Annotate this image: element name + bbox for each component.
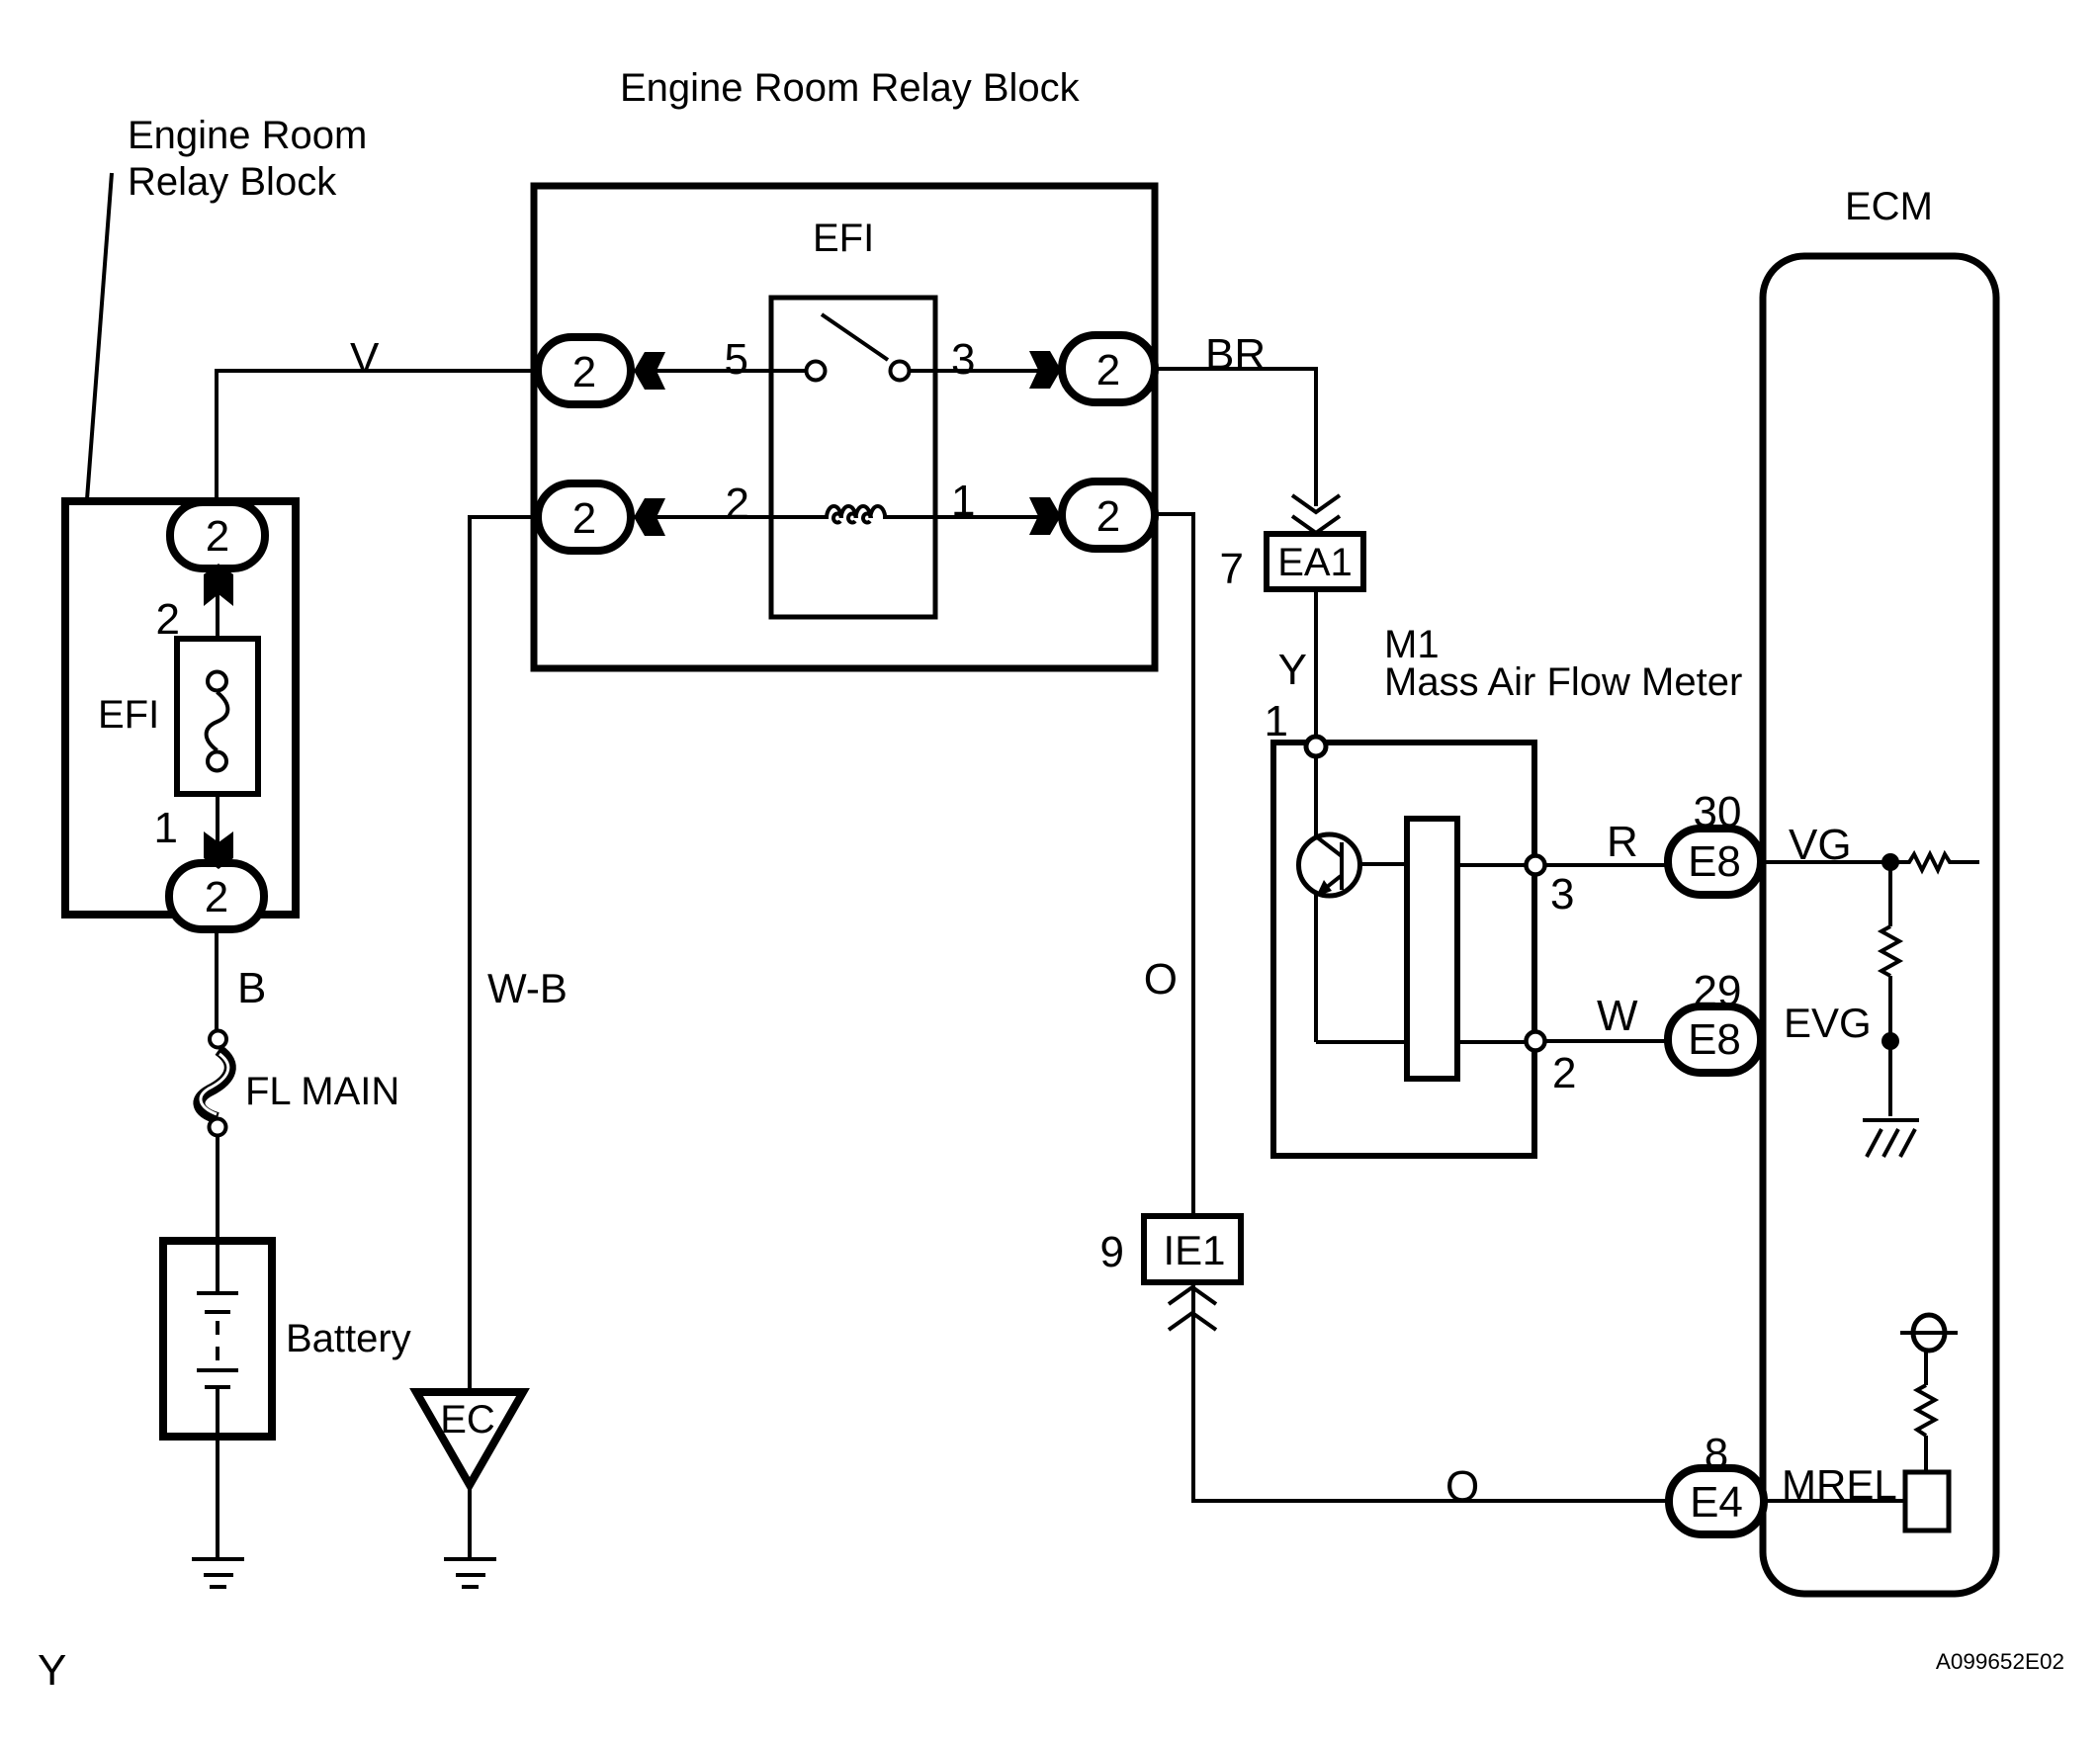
label: 9 IE1 [1100, 1228, 1124, 1276]
svg-text:EA1: EA1 [1277, 541, 1353, 584]
wire: BR run from relay block to EA1 chevrons [1155, 369, 1316, 506]
label: E8 pin29 [1688, 1015, 1741, 1064]
arrow left into relay row1 left oval [634, 352, 665, 390]
relay switch right contact [891, 362, 910, 381]
label: MAF pin 3 [1550, 870, 1574, 918]
svg-text:EVG: EVG [1784, 1000, 1872, 1046]
label: EFI fuse [98, 693, 159, 737]
label: Battery [286, 1317, 411, 1360]
label: R wire [1607, 818, 1638, 866]
double chevron into IE1 [1169, 1287, 1216, 1330]
label: W-B wire [487, 965, 568, 1011]
fuse EFI element squiggle [207, 692, 228, 750]
arrow right into relay row2 right oval [1029, 497, 1061, 535]
wire: battery negative to ground [216, 1387, 219, 1558]
engine room relay block (main) outline [534, 186, 1155, 668]
connector oval E8 pin29 [1668, 1006, 1761, 1073]
svg-text:O: O [1445, 1462, 1479, 1511]
oval text 2 (relay row1 left) [572, 348, 596, 396]
svg-text:1: 1 [154, 804, 178, 852]
label: IE1 [1163, 1227, 1225, 1273]
svg-text:EFI: EFI [813, 217, 874, 260]
connector oval 2 relay row2 right [1062, 481, 1155, 549]
resistor: ECM vertical resistor between VG and EVG [1881, 926, 1899, 976]
svg-text:Battery: Battery [286, 1317, 411, 1360]
label: Engine Room Relay Block (left) [128, 114, 367, 204]
ground under EC [444, 1559, 496, 1587]
MREL relay element square inside ECM [1905, 1472, 1949, 1530]
arrow right into relay row1 right oval [1029, 351, 1061, 389]
junction dot on EVG line [1881, 1032, 1899, 1050]
label: V wire [350, 334, 380, 383]
oval text 2 (relay row2 left) [572, 494, 596, 543]
svg-text:E8: E8 [1688, 837, 1741, 886]
wire: relay row1 inside to right oval [911, 369, 1088, 373]
svg-text:1: 1 [1265, 697, 1288, 745]
label: Y wire [1278, 646, 1307, 694]
svg-text:Engine Room Relay Block: Engine Room Relay Block [620, 66, 1081, 110]
svg-text:B: B [237, 964, 266, 1012]
label: E8 pin30 [1688, 837, 1741, 886]
connector oval 2 top of left block [170, 502, 265, 568]
label: MAF pin 2 [1552, 1049, 1576, 1097]
label: Engine Room Relay Block (top) [620, 66, 1081, 110]
label: Y page marker [38, 1646, 66, 1695]
label: fuse pin 1 [154, 804, 178, 852]
svg-text:IE1: IE1 [1163, 1227, 1225, 1273]
svg-text:FL MAIN: FL MAIN [245, 1070, 399, 1113]
wire: vertical resistor to EVG dot [1888, 976, 1892, 1116]
wire: O run from relay row2 right oval down to IE1 [1155, 514, 1193, 1216]
node 2 on MAF right edge [1527, 1032, 1545, 1051]
svg-text:Y: Y [38, 1646, 66, 1695]
label: pin 3 [951, 335, 975, 384]
arrow down into left block bottom oval [204, 831, 233, 869]
connector oval E4 pin8 [1669, 1468, 1764, 1534]
wire: relay row2 left oval to coil [613, 515, 829, 519]
svg-text:2: 2 [1096, 346, 1120, 394]
svg-text:Mass Air Flow Meter: Mass Air Flow Meter [1384, 660, 1742, 704]
wire: O run from IE1 chevrons to connector E4 [1193, 1285, 1671, 1501]
connector oval 2 bottom of left block [169, 863, 264, 929]
label: EVG [1784, 1000, 1872, 1046]
ECM outline [1763, 256, 1996, 1594]
wire: W-B run from relay row2 left oval to EC ground triangle [470, 517, 554, 1390]
svg-text:3: 3 [951, 335, 975, 384]
relay coil [827, 506, 885, 523]
wire: VG stub after resistor [1952, 860, 1979, 864]
wire: EC triangle to ground [468, 1489, 472, 1558]
label: 29 [1694, 967, 1742, 1015]
svg-text:MREL: MREL [1782, 1461, 1897, 1508]
pointer line from left label to left block [87, 173, 112, 499]
relay EFI inner box [771, 298, 935, 617]
svg-text:5: 5 [725, 335, 748, 384]
wire: left block top oval to EFI fuse [216, 566, 219, 641]
oval text 2 (left block bottom) [205, 873, 228, 921]
svg-text:2: 2 [572, 494, 596, 543]
svg-text:R: R [1607, 818, 1638, 866]
label: drawing number A099652E02 [1936, 1649, 2064, 1674]
svg-text:7: 7 [1220, 545, 1244, 593]
node 3 on MAF right edge [1527, 856, 1545, 875]
wire: R run node 3 to connector E8 pin 30 [1544, 863, 1671, 867]
node 1 on MAF top edge [1306, 737, 1326, 756]
wire: relay row1 left oval to relay inner box [613, 369, 805, 373]
oval text 2 (left block top) [206, 512, 229, 561]
wire: EFI fuse to left block bottom oval [216, 792, 219, 865]
label: O wire upper [1144, 955, 1178, 1004]
label: M1 [1384, 623, 1440, 666]
svg-text:VG: VG [1789, 821, 1852, 869]
label: EC [440, 1398, 495, 1442]
wire: MREL lead inside ECM [1760, 1499, 1905, 1503]
transistor Q inside MAF [1299, 834, 1360, 897]
label: EFI relay [813, 217, 874, 260]
crossed circle: ECM internal supply symbol [1900, 1315, 1958, 1351]
label: pin 2 [726, 480, 749, 528]
svg-text:2: 2 [726, 480, 749, 528]
svg-text:A099652E02: A099652E02 [1936, 1649, 2064, 1674]
svg-text:Relay Block: Relay Block [128, 160, 337, 204]
wire: W run node 2 to connector E8 pin 29 [1544, 1039, 1671, 1043]
label: EA1 [1277, 541, 1353, 584]
svg-text:O: O [1144, 955, 1178, 1004]
svg-text:V: V [350, 334, 380, 383]
svg-text:Y: Y [1278, 646, 1307, 694]
fusible link FL MAIN squiggle [199, 1050, 229, 1118]
MAF meter box M1 [1273, 743, 1534, 1156]
wire: MAF internal bottom rail to node 2 [1316, 1040, 1528, 1044]
svg-text:30: 30 [1694, 788, 1742, 836]
wire: VG lead inside ECM [1758, 860, 1884, 864]
connector oval 2 relay row1 left [538, 337, 631, 404]
wire: resistor to crossed circle [1924, 1349, 1928, 1385]
label: MREL [1782, 1461, 1897, 1508]
svg-text:2: 2 [206, 512, 229, 561]
wire: battery positive lead [216, 1244, 219, 1293]
svg-text:E4: E4 [1690, 1478, 1743, 1527]
svg-text:EFI: EFI [98, 693, 159, 737]
svg-text:2: 2 [1096, 492, 1120, 541]
svg-text:W-B: W-B [487, 965, 568, 1011]
svg-text:ECM: ECM [1845, 185, 1933, 228]
svg-text:8: 8 [1705, 1430, 1728, 1478]
svg-text:2: 2 [156, 595, 180, 644]
battery box [163, 1241, 272, 1437]
label: FL MAIN [245, 1070, 399, 1113]
arrow up into left block top oval [204, 564, 233, 606]
label: pin 1 [951, 477, 975, 525]
label: MAF pin 1 [1265, 697, 1288, 745]
svg-text:BR: BR [1205, 330, 1266, 379]
EC ground triangle [416, 1392, 523, 1485]
svg-text:29: 29 [1694, 967, 1742, 1015]
wire: relay coil element to crossed circle [1924, 1436, 1928, 1472]
resistor: ECM horizontal resistor on VG line [1898, 854, 1957, 870]
wire: MAF internal emitter drop [1314, 893, 1318, 1042]
wire: VG dot down to vertical resistor [1888, 862, 1892, 926]
fusible link FL MAIN top circle [210, 1031, 226, 1048]
label: E4 [1690, 1478, 1743, 1527]
label: pin 5 [725, 335, 748, 384]
svg-text:2: 2 [572, 348, 596, 396]
ground under battery [192, 1559, 244, 1587]
wire: V run from left block to relay block row1 [217, 371, 554, 502]
fusible link FL MAIN bottom circle [210, 1119, 226, 1136]
wire: FL MAIN to battery [216, 1135, 219, 1244]
connector oval E8 pin30 [1668, 829, 1761, 895]
svg-text:2: 2 [205, 873, 228, 921]
svg-text:9: 9 [1100, 1228, 1124, 1276]
svg-text:Engine Room: Engine Room [128, 114, 367, 157]
label: 30 [1694, 788, 1742, 836]
wire: coil to relay row2 right oval [883, 515, 1088, 519]
connector oval 2 relay row1 right [1062, 335, 1155, 402]
label: ECM [1845, 185, 1933, 228]
label: W wire [1597, 992, 1638, 1040]
resistor: ECM vertical resistor above MREL relay element [1917, 1385, 1935, 1436]
connector oval 2 relay row2 left [538, 483, 631, 551]
left engine room relay block outline [65, 501, 296, 915]
wire: transistor to measuring element [1359, 862, 1407, 866]
label: O wire lower [1445, 1462, 1479, 1511]
relay switch blade [822, 314, 888, 360]
label: Mass Air Flow Meter [1384, 660, 1742, 704]
svg-text:3: 3 [1550, 870, 1574, 918]
EA1 connector box [1267, 534, 1363, 589]
wire: B run from left block to FL MAIN [215, 926, 219, 1031]
fuse EFI bottom terminal circle [208, 752, 226, 771]
IE1 connector box [1144, 1216, 1241, 1282]
label: VG [1789, 821, 1852, 869]
measuring element plate inside MAF [1407, 819, 1457, 1079]
svg-text:EC: EC [440, 1398, 495, 1442]
battery plates [197, 1293, 238, 1387]
oval text 2 (relay row1 right) [1096, 346, 1120, 394]
label: BR wire [1205, 330, 1266, 379]
svg-text:1: 1 [951, 477, 975, 525]
chassis ground under EVG resistor [1863, 1120, 1919, 1157]
wire: measuring element to node 3 [1457, 863, 1528, 867]
svg-text:E8: E8 [1688, 1015, 1741, 1064]
relay switch left contact [807, 362, 826, 381]
label: fuse pin 2 [156, 595, 180, 644]
oval text 2 (relay row2 right) [1096, 492, 1120, 541]
label: B wire [237, 964, 266, 1012]
svg-text:2: 2 [1552, 1049, 1576, 1097]
label: 8 E4 [1705, 1430, 1728, 1478]
svg-text:W: W [1597, 992, 1638, 1040]
arrow left into relay row2 left oval [634, 498, 665, 536]
junction dot on VG line [1881, 853, 1899, 871]
wire: EA1 to node 1 of mass air flow meter [1314, 592, 1318, 740]
fuse EFI top terminal circle [208, 672, 226, 691]
wire: MAF internal collector drop from node 1 [1314, 753, 1318, 838]
fuse EFI body [177, 639, 258, 794]
double chevron into EA1 [1292, 495, 1340, 533]
label: 7 EA1 [1220, 545, 1244, 593]
